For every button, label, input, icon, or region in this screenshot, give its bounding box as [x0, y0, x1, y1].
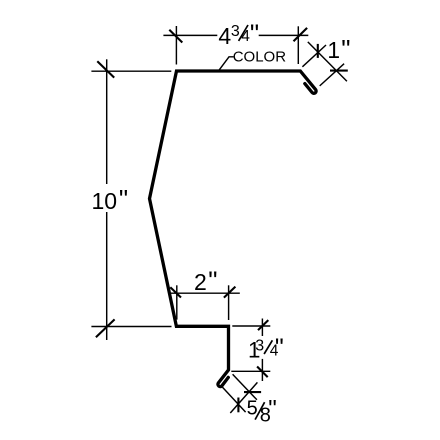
svg-text:2": 2"	[194, 265, 217, 295]
svg-text:4: 4	[241, 28, 250, 45]
svg-text:10": 10"	[92, 184, 129, 214]
COLOR leader line	[219, 57, 233, 70]
tick 1 3/4" top	[258, 320, 268, 330]
svg-text:1": 1"	[327, 34, 350, 64]
extension line left	[175, 26, 177, 65]
extension line bottom	[91, 326, 171, 328]
dimension 5/8" dim line (diagonal, bottom)	[223, 374, 258, 413]
extension line right	[228, 285, 230, 320]
extension line upper	[302, 45, 326, 67]
profile outline (sheet-metal trim cross-section with top and bottom hems)	[150, 71, 317, 387]
dimension 2" dim line	[169, 285, 240, 320]
tick 1 3/4" bottom	[257, 367, 268, 378]
extension line left	[176, 285, 178, 319]
tick 5/8" lower (vertical)	[237, 398, 239, 413]
extension line lower	[320, 64, 344, 86]
label 4 3/4" : fraction slash	[239, 25, 248, 41]
tick 2" right	[224, 287, 236, 298]
svg-text:3: 3	[255, 338, 264, 355]
label 5/8" : fraction slash	[255, 402, 265, 419]
tick 4 3/4" left	[169, 30, 182, 43]
tick 1" lower (horizontal)	[330, 70, 348, 72]
dimension 4 3/4" dim line (broken for text)	[163, 26, 308, 65]
svg-text:": "	[275, 334, 284, 362]
tick 1" upper (vertical)	[317, 44, 319, 58]
dimension 1" dim line (diagonal, top right)	[302, 42, 347, 86]
svg-text:": "	[250, 18, 259, 48]
label 1 3/4" : fraction slash	[264, 340, 272, 354]
extension line lower	[223, 387, 246, 412]
dimension 1 3/4" dim line (broken for text)	[231, 319, 270, 382]
tick 2" left	[170, 287, 181, 297]
svg-text:COLOR: COLOR	[233, 48, 287, 65]
svg-text:": "	[268, 395, 277, 422]
extension line right	[297, 26, 299, 64]
extension line top	[91, 70, 171, 72]
extension line top	[232, 325, 270, 327]
extension line bottom	[231, 370, 270, 372]
tick 5/8" upper (horizontal)	[244, 391, 261, 393]
extension line upper	[233, 374, 257, 400]
tick 10" bottom	[96, 319, 115, 337]
svg-text:4: 4	[218, 23, 231, 49]
dimension 10" dim line (broken for text)	[91, 59, 171, 340]
svg-text:3: 3	[231, 23, 240, 40]
tick 4 3/4" right	[294, 28, 308, 41]
tick 10" top	[97, 61, 114, 77]
